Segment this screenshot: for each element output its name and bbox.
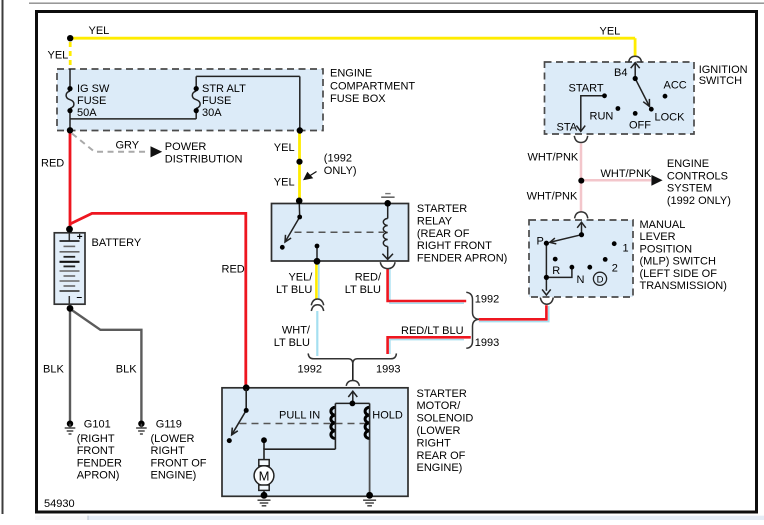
battery B1 internals [68, 233, 70, 304]
connector ignition top [629, 56, 642, 62]
node solenoid switch contact [244, 408, 249, 413]
svg-text:DISTRIBUTION: DISTRIBUTION [165, 153, 243, 165]
node fuse F2 bottom [194, 108, 199, 113]
svg-text:GRY: GRY [116, 140, 140, 152]
svg-text:LOCK: LOCK [655, 111, 686, 123]
svg-text:TRANSMISSION): TRANSMISSION) [640, 280, 727, 292]
bottom status bar [35, 516, 764, 520]
svg-text:(LOWER: (LOWER [417, 425, 461, 437]
svg-text:STARTER: STARTER [417, 203, 467, 215]
svg-text:RED: RED [222, 263, 245, 275]
MLP switch box (dashed) [529, 220, 633, 297]
page top edge line [29, 2, 764, 4]
ignition switch S1 internals [576, 63, 649, 132]
svg-text:FUSE: FUSE [77, 95, 106, 107]
svg-text:APRON): APRON) [77, 470, 120, 482]
relay K1 chassis mark [385, 193, 390, 195]
svg-text:IG SW: IG SW [77, 83, 110, 95]
svg-text:ONLY): ONLY) [324, 165, 357, 177]
ground under motor [258, 500, 271, 506]
svg-text:MANUAL: MANUAL [640, 219, 686, 231]
svg-text:RIGHT: RIGHT [151, 445, 186, 457]
wire RED/LT BLU brace to MLP switch [479, 306, 549, 322]
solenoid linkage dashed [240, 423, 367, 425]
wire BLK battery to G101 [69, 310, 71, 423]
node ACC contact [663, 94, 668, 99]
battery body [54, 233, 85, 304]
node solenoid blade end [227, 438, 232, 443]
svg-text:POSITION: POSITION [640, 243, 693, 255]
starter motor/solenoid box [222, 388, 408, 497]
svg-text:ENGINE): ENGINE) [417, 462, 463, 474]
wire RED/LT BLU 1993 branch [390, 340, 464, 354]
svg-text:RELAY: RELAY [417, 215, 453, 227]
node YEL tap top left [67, 35, 73, 41]
wire hold coil to ground [369, 440, 371, 495]
svg-text:R: R [552, 265, 560, 277]
svg-text:YEL/: YEL/ [288, 271, 313, 283]
svg-text:LT BLU: LT BLU [276, 284, 312, 296]
svg-text:REAR OF: REAR OF [417, 450, 466, 462]
starter relay box [272, 204, 409, 262]
svg-text:(LEFT SIDE OF: (LEFT SIDE OF [640, 268, 718, 280]
arrow to engine controls system [651, 175, 662, 186]
node fuse F2 top [194, 86, 199, 91]
svg-text:COMPARTMENT: COMPARTMENT [330, 80, 415, 92]
svg-text:BATTERY: BATTERY [92, 237, 142, 249]
node motor tap [261, 437, 267, 443]
node solenoid red input [243, 384, 250, 391]
svg-text:(MLP) SWITCH: (MLP) SWITCH [640, 256, 716, 268]
svg-text:B4: B4 [614, 67, 627, 79]
svg-text:STR ALT: STR ALT [202, 83, 246, 95]
svg-text:RED: RED [41, 158, 64, 170]
svg-text:30A: 30A [202, 107, 222, 119]
svg-text:RED/: RED/ [355, 271, 382, 283]
svg-text:POWER: POWER [165, 141, 207, 153]
svg-text:(1992 ONLY): (1992 ONLY) [667, 195, 731, 207]
page left edge line [2, 0, 4, 514]
wire RED/LT BLU relay coil to 1992 brace [390, 269, 464, 304]
node N contact [570, 265, 575, 270]
node LOCK contact [649, 107, 654, 112]
relay K1 coil [382, 203, 393, 259]
wire WHT/PNK horizontal to engine controls [581, 179, 651, 182]
svg-text:ENGINE: ENGINE [667, 158, 709, 170]
wire YEL top horizontal [73, 37, 635, 40]
node OFF contact [633, 111, 638, 116]
svg-text:WHT/PNK: WHT/PNK [601, 168, 652, 180]
svg-text:BLK: BLK [116, 363, 137, 375]
node battery negative [67, 305, 74, 312]
svg-text:ENGINE: ENGINE [330, 67, 372, 79]
svg-text:HOLD: HOLD [372, 410, 403, 422]
svg-text:START: START [569, 83, 604, 95]
node MLP output junction [544, 275, 549, 280]
ground G119 [138, 421, 144, 427]
connector MLP top [575, 212, 588, 219]
wire GRY dashed to power distribution [72, 134, 148, 152]
connector solenoid top [346, 381, 359, 386]
svg-text:YEL: YEL [600, 25, 621, 37]
coil HOLD [365, 407, 370, 438]
ignition switch box (dashed) [545, 62, 695, 134]
svg-text:LEVER: LEVER [640, 231, 676, 243]
node WHT/PNK junction [578, 178, 584, 184]
node RUN contact [616, 106, 621, 111]
svg-text:SWITCH: SWITCH [699, 75, 742, 87]
wire YEL down to ignition switch [634, 38, 637, 56]
engine compartment fuse box (dashed box) [57, 69, 323, 131]
svg-text:–: – [77, 292, 83, 303]
svg-text:MOTOR/: MOTOR/ [417, 400, 462, 412]
coil PULL IN [331, 407, 336, 438]
svg-text:G101: G101 [84, 418, 111, 430]
svg-text:RIGHT: RIGHT [417, 437, 452, 449]
wire RED battery to starter solenoid [70, 213, 246, 386]
arrow to power distribution [151, 146, 163, 157]
wire splice to starter solenoid [352, 364, 354, 381]
svg-text:(RIGHT: (RIGHT [77, 433, 115, 445]
svg-text:OFF: OFF [629, 119, 651, 131]
solenoid switch [232, 389, 247, 435]
svg-text:ACC: ACC [664, 79, 687, 91]
node relay switch upper contact [297, 215, 302, 220]
svg-text:WHT/: WHT/ [282, 324, 311, 336]
svg-text:+: + [77, 232, 83, 243]
svg-text:WHT/PNK: WHT/PNK [528, 151, 579, 163]
wire WHT/PNK ignition to junction [580, 144, 583, 213]
svg-text:P: P [537, 236, 544, 248]
node fuse box right output [297, 127, 303, 133]
svg-text:2: 2 [612, 263, 618, 275]
brace right 1992/1993 [466, 292, 479, 348]
svg-text:STARTER: STARTER [417, 388, 467, 400]
solenoid input arrow [335, 391, 369, 403]
svg-text:(REAR OF: (REAR OF [417, 228, 470, 240]
node 2 contact [603, 257, 608, 262]
svg-text:1993: 1993 [475, 337, 499, 349]
node YEL 1992 junction [296, 159, 302, 165]
ground under hold coil [363, 500, 376, 506]
node START contact [602, 93, 607, 98]
svg-text:G119: G119 [156, 418, 182, 430]
wire YEL dashed drop to fuse box [69, 42, 72, 69]
wire RED fuse box to battery [69, 132, 72, 229]
node relay coil top [384, 200, 391, 207]
wire BLK battery to G119 [71, 310, 141, 424]
wire pull-in coil to motor [264, 449, 335, 459]
svg-text:FENDER: FENDER [77, 457, 122, 469]
brace bottom splice [308, 353, 396, 364]
svg-text:FUSE: FUSE [202, 95, 231, 107]
node relay yellow input [296, 198, 303, 205]
svg-text:YEL: YEL [274, 177, 295, 189]
svg-text:1: 1 [623, 242, 629, 254]
fuse F1 IG SW FUSE 50A [66, 69, 74, 130]
svg-text:RIGHT FRONT: RIGHT FRONT [417, 240, 492, 252]
wire WHT/LT BLU connector to splice bracket [316, 311, 318, 356]
svg-text:FENDER APRON): FENDER APRON) [417, 253, 507, 265]
svg-text:(1992: (1992 [324, 153, 352, 165]
fuse F2 STR ALT FUSE 30A [70, 76, 300, 130]
svg-text:CONTROLS: CONTROLS [667, 170, 728, 182]
svg-text:D: D [597, 275, 604, 286]
MLP D circle [593, 272, 606, 285]
svg-text:YEL: YEL [89, 25, 110, 37]
connector inline YEL-WHT/LT BLU [311, 299, 323, 305]
node battery positive [66, 226, 73, 233]
svg-text:RUN: RUN [590, 110, 614, 122]
svg-text:YEL: YEL [274, 142, 295, 154]
node R contact [553, 257, 558, 262]
svg-text:LT BLU: LT BLU [274, 337, 310, 349]
node relay switch output [314, 258, 321, 265]
connector ignition bottom [574, 136, 587, 143]
svg-text:1993: 1993 [376, 363, 400, 375]
connector MLP bottom [540, 298, 553, 305]
wire YEL fuse box to starter relay [298, 132, 301, 201]
svg-text:FUSE BOX: FUSE BOX [330, 93, 386, 105]
svg-text:RED/LT BLU: RED/LT BLU [401, 325, 464, 337]
node relay switch NO contact [315, 244, 320, 249]
node fuse box left output [67, 127, 73, 133]
svg-text:BLK: BLK [43, 363, 64, 375]
svg-text:1992: 1992 [298, 363, 322, 375]
node fuse F1 bottom [67, 108, 72, 113]
svg-text:FRONT OF: FRONT OF [151, 457, 207, 469]
svg-text:FRONT: FRONT [77, 445, 115, 457]
svg-text:SYSTEM: SYSTEM [667, 183, 712, 195]
node fuse F1 top [67, 86, 72, 91]
svg-text:STA: STA [557, 121, 578, 133]
node 1 contact [612, 241, 617, 246]
svg-text:WHT/PNK: WHT/PNK [527, 191, 578, 203]
relay K1 linkage dashed [295, 231, 385, 233]
node D contact [587, 265, 592, 270]
svg-text:SOLENOID: SOLENOID [417, 413, 474, 425]
svg-text:N: N [577, 274, 585, 286]
ground G101 [67, 421, 73, 427]
wire YEL/LT BLU relay to connector [315, 263, 318, 300]
relay K1 switch [285, 201, 317, 261]
arrow 1992-only pointer [304, 172, 316, 180]
svg-text:ENGINE): ENGINE) [151, 470, 197, 482]
node MLP wiper [579, 232, 584, 237]
node P contact [544, 241, 549, 246]
svg-text:PULL IN: PULL IN [279, 410, 320, 422]
connector relay coil bottom [380, 262, 395, 268]
node relay switch NC contact [280, 245, 285, 250]
svg-text:(LOWER: (LOWER [151, 433, 195, 445]
node B4 wiper [633, 76, 638, 81]
node motor ground [261, 492, 268, 499]
MLP switch internals [542, 222, 586, 295]
svg-text:YEL: YEL [48, 50, 69, 62]
svg-text:LT BLU: LT BLU [345, 284, 381, 296]
svg-text:50A: 50A [77, 107, 97, 119]
svg-text:54930: 54930 [44, 498, 75, 510]
motor M [259, 460, 269, 466]
svg-text:1992: 1992 [475, 294, 499, 306]
node solenoid coils junction [350, 401, 356, 407]
node hold coil ground [366, 492, 373, 499]
svg-text:M: M [259, 468, 270, 483]
